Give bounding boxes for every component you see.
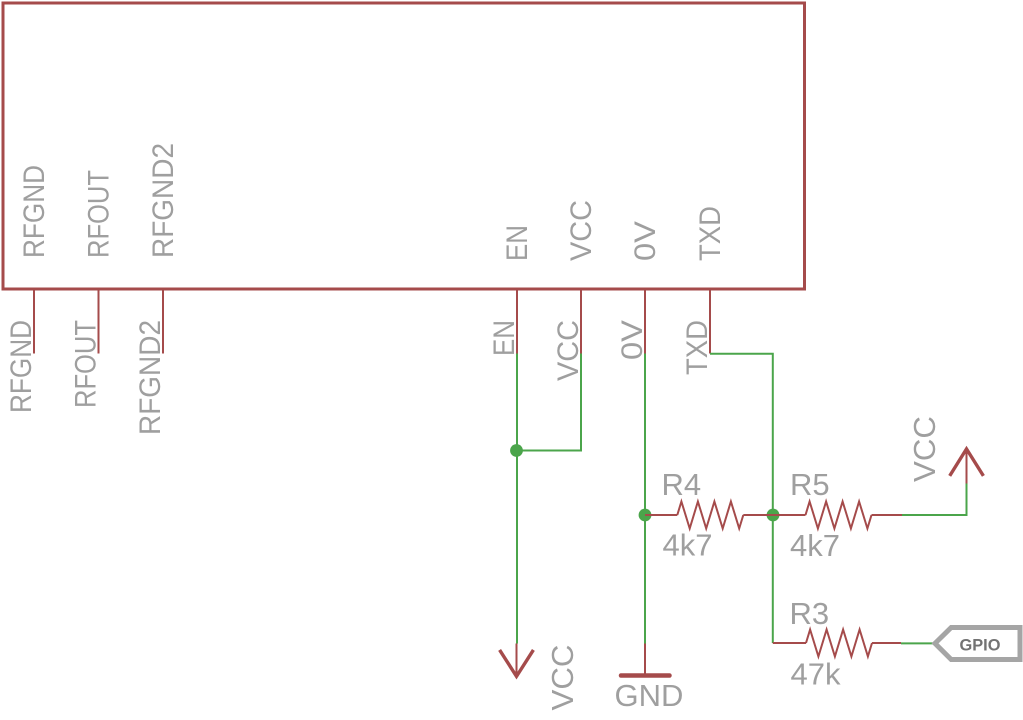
pin EN stub xyxy=(516,289,518,354)
wire R3 to GPIO xyxy=(901,642,935,644)
svg-text:R5: R5 xyxy=(790,467,830,502)
wire R5 to VCC arrow xyxy=(902,483,967,515)
pin RFGND stub xyxy=(33,289,35,354)
resistor R5 xyxy=(773,502,902,529)
VCC supply arrow (down) at EN xyxy=(516,644,518,675)
wire 0V vertical xyxy=(644,354,646,644)
wire EN vertical xyxy=(516,354,518,644)
svg-text:47k: 47k xyxy=(791,657,841,692)
svg-text:R4: R4 xyxy=(662,467,702,502)
svg-text:0V: 0V xyxy=(629,221,662,261)
svg-text:4k7: 4k7 xyxy=(663,528,713,563)
IC body U1 (RF module outline) xyxy=(3,3,805,289)
svg-text:RFGND: RFGND xyxy=(18,165,51,258)
svg-text:RFGND2: RFGND2 xyxy=(134,320,167,435)
junction TXD/R4/R5 xyxy=(767,509,780,522)
svg-text:VCC: VCC xyxy=(545,645,580,711)
svg-text:TXD: TXD xyxy=(694,206,727,261)
svg-text:GND: GND xyxy=(615,678,684,713)
GND symbol xyxy=(644,644,646,675)
pin RFOUT stub xyxy=(98,289,100,354)
svg-text:4k7: 4k7 xyxy=(790,528,840,563)
svg-text:RFOUT: RFOUT xyxy=(70,320,103,408)
resistor R3 xyxy=(773,630,901,657)
svg-text:EN: EN xyxy=(488,320,521,356)
GPIO net flag xyxy=(935,628,1020,660)
svg-text:RFGND: RFGND xyxy=(5,320,38,413)
wire TXD right + down xyxy=(710,354,773,643)
svg-text:R3: R3 xyxy=(790,596,830,631)
pin RFGND2 stub xyxy=(162,289,164,354)
svg-text:VCC: VCC xyxy=(565,200,598,261)
pin VCC stub xyxy=(580,289,582,354)
junction EN/VCC xyxy=(510,444,523,457)
resistor R4 xyxy=(645,502,773,529)
svg-text:EN: EN xyxy=(501,225,534,261)
svg-text:RFGND2: RFGND2 xyxy=(147,143,180,258)
svg-text:GPIO: GPIO xyxy=(960,636,1001,655)
VCC supply arrow (up) xyxy=(966,449,968,484)
svg-text:TXD: TXD xyxy=(681,320,714,375)
svg-text:VCC: VCC xyxy=(907,416,942,482)
svg-text:RFOUT: RFOUT xyxy=(83,170,116,258)
pin 0V stub xyxy=(644,289,646,354)
junction 0V/R4 xyxy=(639,509,652,522)
wire VCC down + left to EN xyxy=(517,354,581,451)
pin TXD stub xyxy=(709,289,711,354)
